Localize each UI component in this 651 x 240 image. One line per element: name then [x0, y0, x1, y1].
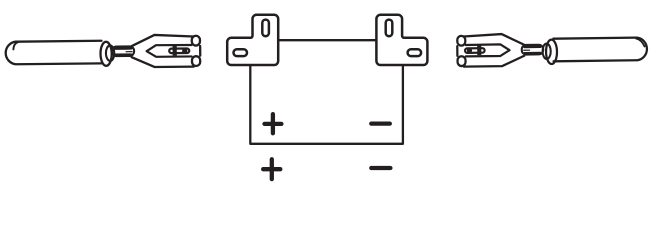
detent dot [467, 49, 472, 52]
connector shell top [131, 35, 193, 47]
crimp barrel outline [522, 45, 544, 55]
cable end cap [546, 40, 557, 65]
minus mark inside box [371, 121, 390, 125]
wire strand lower [115, 53, 131, 56]
right plate horizontal slot [408, 49, 422, 56]
receptacle opening [456, 46, 458, 56]
crimp band [173, 45, 177, 55]
wire strand mid [524, 49, 530, 51]
detent capsule [169, 48, 189, 53]
wire strand upper [525, 45, 541, 48]
left terminal plate [227, 15, 278, 65]
cable insulation body [6, 41, 102, 65]
right terminal plate [376, 15, 427, 65]
battery box [250, 66, 403, 144]
conductor core [106, 45, 115, 60]
right plate vertical slot [386, 20, 393, 37]
minus mark below box [371, 166, 390, 170]
connector shell bottom [464, 56, 525, 67]
rolled edge top [192, 36, 200, 46]
connector shell top [464, 34, 525, 46]
rolled edge top [457, 36, 465, 46]
connecting strap [278, 39, 376, 41]
connector shell bottom [132, 57, 194, 68]
detent dot [182, 49, 187, 52]
detent capsule [465, 48, 485, 53]
inner blade outline [147, 45, 192, 57]
plus mark inside box [265, 114, 282, 133]
wire strand mid [126, 51, 132, 53]
inner blade outline [466, 44, 510, 56]
right cable assembly [457, 32, 647, 66]
left plate horizontal slot [234, 49, 248, 56]
wire strand upper [115, 47, 131, 50]
crimp barrel outline [112, 46, 134, 56]
cable end crease [636, 38, 644, 46]
cable insulation body [553, 38, 647, 62]
cable end cap [100, 42, 111, 66]
rolled edge bottom [457, 56, 465, 66]
left plate vertical slot [262, 20, 269, 37]
cable end crease [13, 42, 18, 49]
left cable assembly [6, 34, 201, 68]
plus mark below box [263, 159, 280, 179]
wire strand lower [525, 52, 541, 55]
receptacle opening [199, 46, 201, 56]
rolled edge bottom [192, 56, 200, 66]
crimp band [477, 45, 481, 55]
conductor core [542, 44, 550, 60]
